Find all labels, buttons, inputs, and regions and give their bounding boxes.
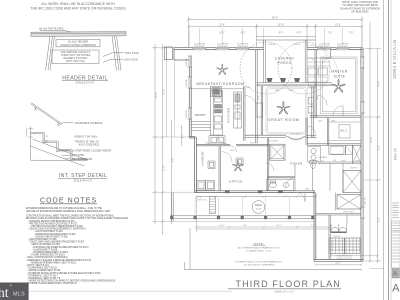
svg-text:TEMPERED: TEMPERED — [337, 46, 349, 48]
svg-text:- HAZARDS AREAS/SECT R-308.4: - HAZARDS AREAS/SECT R-308.4 — [32, 251, 69, 254]
svg-text:- EXTERIOR INSTALLATION FORCED: - EXTERIOR INSTALLATION FORCED SYSTEM EL… — [27, 272, 101, 275]
svg-text:OFFICE: OFFICE — [229, 180, 243, 184]
windows top wall breakfast — [189, 47, 363, 218]
svg-text:3068 SL: 3068 SL — [268, 44, 276, 46]
header note box 1 — [56, 39, 100, 46]
vanity with sinks — [307, 147, 320, 163]
stringer diagonal — [33, 139, 88, 160]
svg-text:1x STAIR RISER CLOSED RISERS: 1x STAIR RISER CLOSED RISERS — [72, 149, 112, 152]
svg-text:2068: 2068 — [355, 160, 359, 162]
left wall upper step — [173, 48, 175, 60]
code notes text block — [26, 207, 128, 285]
MLS logo — [0, 283, 29, 300]
svg-text:A: A — [392, 283, 400, 295]
master hall closet wall — [330, 50, 332, 58]
foyer bottom/powder wall — [267, 175, 295, 177]
svg-text:- PROTECTION AGAINST DECAY/SEC: - PROTECTION AGAINST DECAY/SECT R-317 — [28, 222, 78, 225]
hall door arcs — [309, 58, 317, 66]
svg-text:UNLESS NOTED OTHERWISE: UNLESS NOTED OTHERWISE — [60, 44, 96, 47]
great room tray ceiling — [266, 87, 307, 134]
svg-text:14'-1": 14'-1" — [219, 33, 225, 35]
svg-text:10'-2": 10'-2" — [219, 225, 225, 227]
svg-text:2468: 2468 — [331, 120, 335, 122]
master bath fixtures — [307, 58, 361, 169]
svg-text:SCALE 3/4"=1'-0": SCALE 3/4"=1'-0" — [74, 180, 93, 183]
HEADER DETAIL drawing — [31, 27, 139, 85]
toilet — [311, 163, 316, 169]
tread dim text — [42, 136, 49, 143]
svg-text:MASTER: MASTER — [331, 70, 347, 74]
right dimension line — [364, 22, 381, 262]
svg-text:ALL WORK SHALL BE IN ACCORDANC: ALL WORK SHALL BE IN ACCORDANCE WITH — [41, 2, 115, 6]
CODE NOTES heading — [26, 197, 128, 285]
great room bottom wall — [245, 134, 286, 136]
svg-text:CONSTRUCTION SHALL MEET THE FO: CONSTRUCTION SHALL MEET THE FOLLOWING SE… — [26, 215, 115, 218]
svg-text:- SMOKE DETECTORS/CO ALARMS TO: - SMOKE DETECTORS/CO ALARMS TO DESTROY D… — [27, 280, 116, 283]
title — [59, 173, 107, 183]
window labels — [186, 44, 349, 118]
porch roof dashed arcs — [240, 42, 292, 94]
bottom interior dimension rows — [195, 195, 379, 266]
svg-text:- DISTANCE FOR INNER PLUMB APP: - DISTANCE FOR INNER PLUMB APPL/SECT R-3… — [32, 246, 89, 249]
master suite left wall — [314, 50, 316, 118]
svg-text:5'-4": 5'-4" — [243, 225, 247, 227]
deck posts — [170, 216, 314, 220]
general note top-left — [30, 2, 126, 11]
svg-text:TEMPERED: TEMPERED — [237, 46, 249, 48]
covered porch — [240, 37, 340, 94]
master door arc — [333, 106, 343, 116]
bottom wall of house — [195, 190, 315, 192]
porch/great room wall — [257, 82, 333, 84]
svg-text:FOYER: FOYER — [290, 161, 303, 165]
window center extension lines — [190, 28, 362, 47]
right wall windows — [361, 57, 364, 68]
svg-text:10": 10" — [46, 136, 49, 138]
svg-text:WITH CS16 COIL: WITH CS16 COIL — [66, 60, 86, 63]
svg-text:- TOILET, BATH AND SHOWER SPAC: - TOILET, BATH AND SHOWER SPACES/SECT R-… — [28, 241, 85, 244]
svg-text:M.BATH: M.BATH — [319, 156, 328, 159]
svg-text:GRASPABLE HANDRAIL: GRASPABLE HANDRAIL — [75, 122, 104, 125]
interior dim texts — [197, 95, 359, 202]
svg-text:PANTRY: PANTRY — [195, 113, 207, 117]
deck bottom rails — [170, 215, 316, 217]
svg-text:- EMERGENCY ESCAPE & RESCUE OP: - EMERGENCY ESCAPE & RESCUE OPENINGS/SEC… — [26, 259, 92, 262]
svg-text:4'-7": 4'-7" — [182, 134, 184, 139]
window W11 right wall stairs — [361, 207, 364, 218]
svg-text:TEMPERED: TEMPERED — [194, 46, 206, 48]
master bottom wall — [310, 115, 361, 117]
svg-text:11'-0": 11'-0" — [276, 225, 281, 227]
left wall (breakfast) — [188, 60, 190, 137]
svg-text:ATTIC ACC: ATTIC ACC — [343, 210, 355, 213]
misc small labels along walls — [205, 48, 367, 238]
svg-text:2x12 STEP: 2x12 STEP — [72, 154, 85, 157]
svg-text:- CEILING AND ROOM REQUIREMENT: - CEILING AND ROOM REQUIREMENTS / CHAPTE… — [28, 228, 86, 231]
svg-text:58'-0": 58'-0" — [272, 17, 278, 19]
top wall left segment (breakfast) — [174, 47, 264, 49]
top plates label — [39, 27, 64, 31]
svg-text:2468: 2468 — [246, 87, 250, 89]
svg-text:BREAKFAST/SUNROOM: BREAKFAST/SUNROOM — [197, 82, 245, 86]
svg-text:11'-0": 11'-0" — [164, 165, 166, 171]
svg-text:DECK: DECK — [255, 203, 263, 207]
window W7 left wall — [189, 77, 192, 88]
hvac note top right — [340, 0, 379, 14]
svg-text:7'-9": 7'-9" — [328, 33, 333, 35]
tub — [330, 146, 344, 154]
svg-text:KITCHEN: KITCHEN — [227, 107, 231, 122]
hall right of foyer — [294, 163, 296, 190]
island strip — [211, 91, 223, 136]
laundry fixtures — [196, 161, 215, 190]
svg-text:BUILT-IN: BUILT-IN — [250, 142, 258, 144]
svg-text:- SANITATION/SECT R-306: - SANITATION/SECT R-306 — [28, 238, 57, 241]
powder room fixtures — [266, 163, 295, 191]
svg-text:5068 BP: 5068 BP — [333, 236, 341, 238]
kitchen/breakfast divider line — [191, 88, 243, 90]
svg-text:COVERED: COVERED — [275, 56, 294, 60]
svg-text:THIRD FLOOR PLAN: THIRD FLOOR PLAN — [236, 279, 341, 289]
room labels — [195, 56, 348, 183]
svg-text:TEMPERED: TEMPERED — [217, 46, 229, 48]
svg-text:- SMOKE ALARMS SECT R-314: - SMOKE ALARMS SECT R-314 — [27, 269, 61, 272]
deck circle label — [252, 201, 265, 214]
stairs down — [329, 238, 360, 254]
svg-text:10964 E VILLA LN: 10964 E VILLA LN — [392, 40, 397, 79]
svg-text:7 3/4": 7 3/4" — [42, 142, 48, 144]
lin closet — [352, 145, 354, 163]
hall closet x-box — [330, 163, 361, 192]
master tray ceiling — [307, 57, 357, 114]
left wall lower (laundry) — [194, 137, 196, 193]
svg-text:51'-4": 51'-4" — [371, 137, 373, 143]
svg-text:16'-8": 16'-8" — [258, 95, 260, 100]
title block text box — [392, 221, 400, 268]
svg-text:GREAT ROOM: GREAT ROOM — [268, 118, 300, 122]
window W10 right wall — [361, 102, 364, 113]
breakfast right / great room left wall — [255, 50, 257, 143]
svg-text:- VENTILATION/SECT R-303: - VENTILATION/SECT R-303 — [30, 243, 61, 246]
svg-text:9'-8": 9'-8" — [173, 158, 175, 163]
svg-text:2668: 2668 — [317, 96, 319, 100]
bottom wall right block — [314, 259, 363, 261]
svg-text:OF BUILDING: OF BUILDING — [351, 10, 368, 14]
stove top — [211, 86, 222, 96]
kitchen/office top wall — [196, 143, 230, 145]
svg-text:BUILDING CODE AS MODIFIED IN M: BUILDING CODE AS MODIFIED IN MARYLAND CO… — [26, 217, 128, 220]
header note box 2 — [52, 50, 99, 63]
svg-text:- MINIMUM ROOM AREAS/SECT R-30: - MINIMUM ROOM AREAS/SECT R-304 — [34, 233, 76, 236]
svg-text:11 3/4 x 10 TRD: 11 3/4 x 10 TRD — [337, 258, 352, 260]
svg-text:SCALE 1/2"=1'-0": SCALE 1/2"=1'-0" — [76, 82, 95, 85]
svg-text:SUITE: SUITE — [334, 74, 346, 78]
svg-text:NOTE:: NOTE: — [254, 242, 265, 246]
kitchen cabinets — [191, 86, 256, 144]
pantry shelves — [191, 121, 210, 123]
svg-text:2468: 2468 — [230, 150, 234, 152]
svg-text:- MINIMUM OPENING AREA / SECT: - MINIMUM OPENING AREA / SECT R-310.1 — [30, 261, 77, 264]
svg-text:2868 SH: 2868 SH — [186, 58, 188, 66]
svg-text:- HANDRAILS / SECT R-311.7.8: - HANDRAILS / SECT R-311.7.8 — [27, 277, 61, 280]
porch left wall — [263, 40, 265, 83]
svg-text:2868 SH: 2868 SH — [365, 197, 367, 205]
porch door labels — [268, 44, 301, 92]
svg-text:- CHIMNEYS AND FIREPLACES / CH: - CHIMNEYS AND FIREPLACES / CHAPTER 10 — [27, 282, 78, 285]
svg-text:2468: 2468 — [205, 142, 209, 144]
bottom line — [31, 159, 87, 161]
svg-text:5'-0": 5'-0" — [343, 254, 347, 256]
title — [62, 75, 107, 84]
rail brackets — [34, 107, 36, 111]
top dimension line 1 — [187, 17, 364, 48]
foyer chase x-box — [270, 144, 286, 160]
svg-text:8'-5": 8'-5" — [279, 33, 284, 35]
fireplace wall second line — [260, 86, 262, 135]
svg-text:JACK STUD: JACK STUD — [124, 58, 138, 61]
svg-text:6'-2": 6'-2" — [241, 33, 246, 35]
svg-text:2868 SH: 2868 SH — [186, 79, 188, 87]
wic shelves — [329, 121, 361, 123]
deck door arc — [296, 193, 305, 202]
svg-text:PLUMBING WALL / 6 1/2": PLUMBING WALL / 6 1/2" — [246, 249, 272, 252]
title: THIRD FLOOR PLAN — [228, 279, 341, 293]
master closet shelves top — [307, 61, 331, 63]
deck stair ladder — [210, 196, 216, 213]
svg-text:7'-6": 7'-6" — [311, 225, 315, 227]
bottom wall window marks — [225, 190, 283, 193]
fan great room — [277, 102, 290, 115]
handrail — [31, 104, 62, 125]
svg-text:19'-6": 19'-6" — [379, 217, 381, 223]
svg-text:NATURE OF EXTERIOR FINISHES MA: NATURE OF EXTERIOR FINISHES MATERIALS FI… — [26, 210, 111, 213]
top dimension line 2 with ticks — [189, 26, 363, 28]
stamp logo patch — [392, 269, 400, 279]
svg-text:MLS: MLS — [13, 291, 25, 297]
window W4 master top — [318, 47, 331, 50]
porch posts — [267, 78, 301, 82]
stair hall walls — [316, 214, 361, 260]
svg-text:W.I.C.: W.I.C. — [340, 128, 348, 132]
svg-text:16'-10": 16'-10" — [277, 25, 284, 27]
svg-text:ht: ht — [0, 285, 9, 300]
window W2 breakfast top — [216, 47, 229, 50]
wic left wall — [326, 118, 328, 146]
steps — [31, 132, 87, 158]
svg-text:14'-2": 14'-2" — [335, 263, 341, 265]
right cabinet run — [234, 92, 242, 128]
leaders — [63, 122, 73, 124]
fan breakfast — [217, 64, 228, 75]
shower — [346, 145, 353, 155]
svg-text:AS IF CODE REQ.: AS IF CODE REQ. — [79, 143, 100, 146]
window W3 breakfast top — [236, 47, 249, 50]
right exterior wall — [360, 48, 362, 262]
foyer arch opening — [286, 136, 306, 140]
left wall windows — [189, 56, 192, 67]
right block left wall — [313, 191, 315, 261]
svg-text:7'-9": 7'-9" — [349, 33, 354, 35]
svg-text:- FLAME SPREAD/SECT R-302.9: - FLAME SPREAD/SECT R-302.9 — [30, 254, 65, 257]
svg-text:6068 ARCH: 6068 ARCH — [291, 132, 302, 135]
svg-text:REV 04: REV 04 — [394, 148, 398, 160]
king stud left — [46, 36, 51, 70]
svg-text:KING STUD: KING STUD — [125, 52, 139, 55]
top wall right segment (master) — [307, 47, 363, 49]
deck joist lines — [196, 226, 330, 228]
svg-text:2468: 2468 — [322, 48, 326, 50]
office right wall / foyer left — [266, 138, 268, 191]
window W8 left wall — [189, 108, 192, 119]
bath door arc — [307, 126, 315, 134]
INT STEP DETAIL drawing — [27, 103, 112, 183]
svg-text:8'-5": 8'-5" — [297, 33, 302, 35]
svg-text:16'-4": 16'-4" — [379, 81, 381, 87]
svg-text:12x26: 12x26 — [256, 208, 261, 210]
svg-text:6068 BP: 6068 BP — [350, 168, 358, 170]
office fixtures — [222, 152, 243, 165]
office door arc — [230, 146, 237, 153]
laundry right wall — [218, 146, 220, 191]
deck post verticals — [195, 197, 289, 215]
svg-text:19'-2": 19'-2" — [164, 89, 166, 95]
svg-text:28'-4": 28'-4" — [156, 92, 158, 98]
svg-text:STEPS DN: STEPS DN — [197, 199, 207, 201]
svg-text:- WALL CONSTRUCTION / CHAPTER: - WALL CONSTRUCTION / CHAPTER 6 — [26, 256, 68, 259]
window W5 master top — [336, 47, 349, 50]
svg-text:15'-6": 15'-6" — [335, 25, 341, 27]
svg-text:15'-2": 15'-2" — [379, 145, 381, 151]
faint sheet bottom line — [29, 290, 232, 292]
upper info text rows — [392, 203, 399, 217]
wic/bath mid wall — [307, 143, 361, 145]
svg-text:- BUILDING DESIGN CRITERIA/SEC: - BUILDING DESIGN CRITERIA/SECT R-301 — [28, 220, 75, 223]
svg-text:2868: 2868 — [305, 188, 309, 190]
bifold doors at stairs — [331, 215, 347, 232]
svg-text:CODE NOTES: CODE NOTES — [40, 197, 97, 204]
sheet border lines — [383, 0, 385, 300]
exterior walls — [165, 47, 364, 261]
svg-text:- STAIRWAYS / SECT R-311.7: - STAIRWAYS / SECT R-311.7 — [27, 274, 59, 277]
svg-text:22'-8": 22'-8" — [219, 25, 225, 27]
interior walls — [191, 50, 361, 191]
svg-text:2x6 STUD AT 1/2" SHEATHING: 2x6 STUD AT 1/2" SHEATHING — [244, 263, 275, 266]
svg-text:2x12 STRINGERS: 2x12 STRINGERS — [72, 158, 93, 161]
svg-text:SCALE 1/4" = 1'-0": SCALE 1/4" = 1'-0" — [274, 290, 294, 293]
svg-text:- GUARDRAILS SECT R-312: - GUARDRAILS SECT R-312 — [27, 267, 58, 270]
attic closet x-box — [336, 193, 362, 211]
wall line — [30, 127, 32, 161]
svg-text:EXTERIOR DIMENSIONS ARE TO OUT: EXTERIOR DIMENSIONS ARE TO OUTSIDE FACE … — [26, 207, 102, 210]
fan office — [232, 160, 243, 171]
fan master — [332, 79, 346, 92]
labels — [72, 122, 112, 161]
step wall to laundry — [189, 135, 195, 137]
king/jack stud labels — [124, 52, 139, 62]
deck left edge — [171, 193, 173, 222]
svg-text:- PROTECTION AGAINST TERMITES/: - PROTECTION AGAINST TERMITES/SECT R-318 — [30, 225, 84, 228]
deck — [170, 193, 330, 229]
svg-text:2868 SH: 2868 SH — [186, 110, 188, 118]
svg-text:2668: 2668 — [318, 120, 322, 122]
king stud right — [112, 36, 117, 71]
bath hall wall — [305, 118, 307, 146]
svg-text:4068 CASED: 4068 CASED — [267, 140, 279, 143]
media niche boxes — [308, 98, 313, 105]
header beam — [31, 32, 126, 37]
wall note box — [236, 242, 283, 266]
svg-text:(2) 2x6 TOP PLATES: (2) 2x6 TOP PLATES — [39, 27, 64, 31]
svg-text:2068: 2068 — [341, 160, 345, 162]
porch right wall — [304, 40, 306, 83]
lin x-box — [353, 145, 361, 163]
chimney bay top-left — [165, 47, 173, 60]
master entry door arc — [317, 95, 328, 106]
svg-text:ALL INTERIOR WALLS FRAMED AT 3: ALL INTERIOR WALLS FRAMED AT 3 1/2" — [238, 247, 280, 250]
svg-text:PORCH: PORCH — [278, 61, 292, 65]
FLOOR PLAN — [152, 0, 381, 293]
svg-text:36x21 VAN: 36x21 VAN — [309, 159, 319, 162]
kitchen right wall — [243, 86, 245, 141]
left dimension lines — [152, 44, 365, 235]
porch eave lines — [257, 36, 316, 38]
deck rail top line — [196, 195, 315, 197]
svg-text:3068 SL: 3068 SL — [293, 44, 301, 46]
sink bottom counters — [209, 136, 225, 144]
svg-text:EXTERIOR WALLS OF HOUSE FRAMED: EXTERIOR WALLS OF HOUSE FRAMED AT 6" — [236, 261, 283, 264]
riser dim marks — [27, 129, 33, 137]
svg-text:RISERS 7 3/4" MAX.: RISERS 7 3/4" MAX. — [75, 135, 99, 138]
RIGHT BORDER / title block strip — [370, 0, 400, 300]
svg-text:LAUNDRY: LAUNDRY — [201, 151, 205, 166]
svg-text:THE IRC 2018 CODE AND ANY STAT: THE IRC 2018 CODE AND ANY STATE OR FEDER… — [30, 7, 126, 11]
svg-text:- GLAZING/SECT R-308: - GLAZING/SECT R-308 — [32, 248, 58, 251]
great room right wall — [311, 86, 313, 138]
plan sheet bottom border — [185, 228, 363, 270]
